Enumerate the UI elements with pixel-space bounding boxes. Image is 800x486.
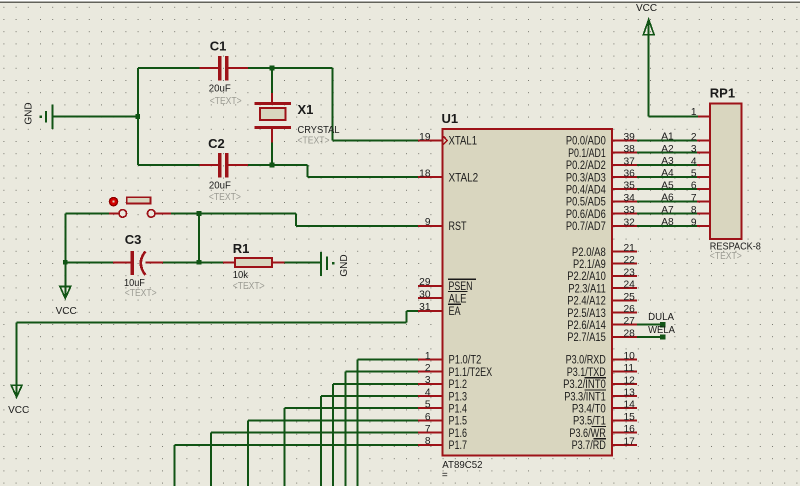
svg-text:25: 25 bbox=[624, 292, 636, 303]
svg-text:30: 30 bbox=[419, 290, 431, 301]
svg-text:10: 10 bbox=[624, 351, 636, 362]
wire crystal top lead bbox=[271, 68, 273, 93]
crystal X1 bbox=[255, 93, 291, 142]
svg-text:3: 3 bbox=[691, 144, 697, 155]
svg-text:P3.1/TXD: P3.1/TXD bbox=[567, 367, 606, 379]
svg-text:3: 3 bbox=[425, 375, 431, 386]
svg-text:13: 13 bbox=[624, 388, 636, 399]
svg-text:15: 15 bbox=[624, 412, 636, 423]
svg-text:P0.4/AD4: P0.4/AD4 bbox=[566, 185, 606, 197]
svg-text:7: 7 bbox=[425, 424, 431, 435]
svg-text:28: 28 bbox=[624, 328, 636, 339]
svg-text:P0.5/AD5: P0.5/AD5 bbox=[566, 197, 606, 209]
clock chevron XTAL1 bbox=[443, 136, 447, 144]
wire VCC to RP1 pin 1 bbox=[649, 115, 698, 117]
junction C1 row / crystal top bbox=[270, 66, 275, 71]
pin 9 RST (left) bbox=[418, 217, 467, 233]
svg-text:VCC: VCC bbox=[8, 405, 29, 416]
pin 25 P2.4/A12 (right) bbox=[567, 292, 637, 308]
wire to RST pin bbox=[296, 213, 418, 225]
svg-text:P2.6/A14: P2.6/A14 bbox=[567, 320, 606, 332]
pin 23 P2.2/A10 (right) bbox=[567, 267, 637, 283]
overline ALE bbox=[448, 291, 468, 293]
pin 37 P0.2/AD2 (right) bbox=[566, 156, 637, 172]
svg-text:31: 31 bbox=[419, 302, 431, 313]
overline WR bbox=[591, 426, 606, 428]
svg-text:P2.1/A9: P2.1/A9 bbox=[573, 259, 606, 271]
svg-text:X1: X1 bbox=[298, 102, 314, 117]
svg-text:<TEXT>: <TEXT> bbox=[233, 280, 265, 292]
svg-text:P3.4/T0: P3.4/T0 bbox=[572, 404, 606, 416]
pin 12 P3.2/INT0 (right) bbox=[563, 375, 637, 391]
svg-text:P0.1/AD1: P0.1/AD1 bbox=[568, 148, 606, 160]
svg-text:A8: A8 bbox=[661, 217, 674, 228]
svg-text:VCC: VCC bbox=[56, 306, 77, 317]
power VCC (reset rail, arrow down) bbox=[60, 286, 71, 298]
pin 14 P3.4/T0 (right) bbox=[572, 400, 637, 416]
overline PSEN bbox=[448, 278, 476, 280]
wire to C3 bbox=[65, 261, 113, 263]
wire reset node vertical bbox=[198, 213, 200, 262]
node WELA terminal bbox=[660, 334, 665, 339]
overline INT1 bbox=[585, 389, 606, 391]
svg-text:2: 2 bbox=[425, 363, 431, 374]
svg-text:10k: 10k bbox=[233, 269, 249, 281]
wire P0.3 to RP1 / net A4 bbox=[637, 168, 697, 179]
pin 32 P0.7/AD7 (right) bbox=[566, 217, 637, 233]
pin 8 RP1 bbox=[691, 205, 710, 216]
pin 3 P1.2 (left) bbox=[418, 375, 467, 391]
pin 5 P1.4 (left) bbox=[418, 400, 467, 416]
wire rail to button bbox=[65, 212, 109, 214]
svg-text:P0.6/AD6: P0.6/AD6 bbox=[566, 209, 606, 221]
svg-text:P3.3/INT1: P3.3/INT1 bbox=[564, 391, 606, 403]
node DULA terminal bbox=[660, 322, 665, 327]
wire C1 right to XTAL1 branch bbox=[248, 67, 332, 69]
svg-text:P0.2/AD2: P0.2/AD2 bbox=[566, 160, 606, 172]
pin 35 P0.4/AD4 (right) bbox=[566, 181, 637, 197]
wire P0.5 to RP1 / net A6 bbox=[637, 193, 697, 204]
svg-text:P3.7/RD: P3.7/RD bbox=[572, 440, 606, 452]
svg-text:36: 36 bbox=[624, 169, 636, 180]
svg-text:32: 32 bbox=[624, 217, 636, 228]
svg-text:P3.5/T1: P3.5/T1 bbox=[573, 416, 606, 428]
wire C3 to R1 bbox=[163, 261, 223, 263]
wire P0.1 to RP1 / net A2 bbox=[637, 144, 697, 155]
svg-text:=: = bbox=[442, 470, 448, 481]
ground GND (left of crystal caps) bbox=[46, 105, 52, 130]
wire P0.6 to RP1 / net A7 bbox=[637, 205, 697, 216]
pin 31 EA (left) bbox=[418, 302, 461, 318]
ground GND (right of R1) bbox=[321, 252, 327, 276]
wire crystal bottom lead bbox=[271, 142, 273, 165]
svg-text:XTAL2: XTAL2 bbox=[449, 172, 479, 184]
svg-text:24: 24 bbox=[624, 280, 636, 291]
wire P1.0 bus bbox=[358, 359, 418, 486]
resistor R1 bbox=[223, 258, 285, 267]
pin 18 XTAL2 (left) bbox=[418, 168, 478, 184]
wire C1 left bbox=[138, 67, 200, 69]
wire button to RST corner bbox=[171, 212, 296, 214]
svg-text:P0.7/AD7: P0.7/AD7 bbox=[566, 221, 606, 233]
svg-text:A1: A1 bbox=[661, 132, 674, 143]
pin 26 P2.5/A13 (right) bbox=[567, 304, 637, 320]
svg-text:AT89C52: AT89C52 bbox=[442, 459, 482, 471]
wire P1.3 bus bbox=[321, 396, 418, 486]
svg-text:P1.4: P1.4 bbox=[449, 404, 468, 416]
svg-text:P1.2: P1.2 bbox=[449, 379, 468, 391]
wire rail to VCC arrow bbox=[64, 262, 66, 296]
svg-text:P2.5/A13: P2.5/A13 bbox=[567, 308, 606, 320]
pin 17 P3.7/RD (right) bbox=[572, 436, 637, 452]
wire P1.2 bus bbox=[333, 384, 418, 486]
overline INT0 bbox=[585, 377, 606, 379]
junction C3/R1 node bbox=[197, 260, 202, 265]
svg-text:2: 2 bbox=[691, 132, 697, 143]
wire WELA stub bbox=[637, 336, 663, 338]
svg-text:A4: A4 bbox=[661, 168, 674, 179]
svg-text:20uF: 20uF bbox=[209, 83, 231, 95]
svg-text:P3.2/INT0: P3.2/INT0 bbox=[563, 379, 606, 391]
pin 29 PSEN (left) bbox=[418, 277, 473, 293]
wire P0.0 to RP1 / net A1 bbox=[637, 132, 697, 143]
svg-text:<TEXT>: <TEXT> bbox=[209, 191, 241, 203]
junction C2 row / crystal bottom bbox=[270, 163, 275, 168]
svg-text:39: 39 bbox=[624, 132, 636, 143]
wire to XTAL1 pin bbox=[332, 68, 418, 140]
wire P1.5 bus bbox=[248, 420, 418, 486]
pin 6 RP1 bbox=[691, 181, 710, 192]
svg-text:34: 34 bbox=[624, 193, 636, 204]
wire left rail C1-C2 bbox=[137, 68, 139, 165]
junction C1/C2 left rail bbox=[135, 114, 140, 119]
svg-text:P2.2/A10: P2.2/A10 bbox=[567, 271, 606, 283]
svg-text:<TEXT>: <TEXT> bbox=[125, 287, 157, 299]
svg-text:XTAL1: XTAL1 bbox=[449, 136, 478, 148]
svg-text:GND: GND bbox=[24, 102, 35, 124]
pin 5 RP1 bbox=[691, 169, 710, 180]
wire DULA stub bbox=[637, 324, 663, 326]
power VCC (top right, arrow up) bbox=[648, 22, 650, 116]
pin 24 P2.3/A11 (right) bbox=[568, 280, 637, 296]
svg-text:RST: RST bbox=[449, 221, 467, 233]
svg-text:P1.7: P1.7 bbox=[449, 440, 468, 452]
pin 1 RP1 bbox=[691, 107, 710, 118]
svg-text:5: 5 bbox=[691, 169, 697, 180]
svg-text:P3.0/RXD: P3.0/RXD bbox=[566, 355, 606, 367]
svg-text:C2: C2 bbox=[208, 136, 225, 151]
pin 3 RP1 bbox=[691, 144, 710, 155]
svg-text:A2: A2 bbox=[661, 144, 674, 155]
wire C2 left bbox=[138, 164, 200, 166]
pin 30 ALE (left) bbox=[418, 290, 467, 306]
pin 33 P0.6/AD6 (right) bbox=[566, 205, 637, 221]
pin 27 P2.6/A14 (right) bbox=[567, 316, 637, 332]
svg-text:4: 4 bbox=[425, 387, 431, 398]
svg-text:A6: A6 bbox=[661, 193, 674, 204]
svg-text:P1.5: P1.5 bbox=[449, 416, 468, 428]
pin 13 P3.3/INT1 (right) bbox=[564, 388, 637, 404]
svg-text:26: 26 bbox=[624, 304, 636, 315]
svg-text:27: 27 bbox=[624, 316, 636, 327]
pin 6 P1.5 (left) bbox=[418, 412, 467, 428]
pin 19 XTAL1 (left) bbox=[418, 132, 477, 148]
IC U1 microcontroller AT89C52 body bbox=[443, 129, 613, 456]
svg-text:A3: A3 bbox=[661, 156, 674, 167]
svg-text:EA: EA bbox=[449, 306, 461, 318]
svg-text:20uF: 20uF bbox=[209, 179, 231, 191]
wire GND to C1/C2 rail bbox=[52, 116, 137, 118]
wire P1.6 bus bbox=[211, 433, 418, 486]
svg-text:16: 16 bbox=[624, 424, 636, 435]
svg-text:C1: C1 bbox=[210, 38, 227, 53]
pin 4 P1.3 (left) bbox=[418, 387, 467, 403]
overline EA bbox=[448, 303, 461, 305]
svg-text:<TEXT>: <TEXT> bbox=[710, 250, 742, 262]
svg-text:21: 21 bbox=[624, 243, 636, 254]
wire P1.4 bus bbox=[284, 408, 418, 486]
capacitor C1 bbox=[199, 56, 248, 80]
window top edge bbox=[0, 0, 800, 2]
svg-text:23: 23 bbox=[624, 267, 636, 278]
svg-text:A7: A7 bbox=[661, 205, 674, 216]
pin 1 P1.0/T2 (left) bbox=[418, 351, 481, 367]
svg-text:1: 1 bbox=[425, 351, 431, 362]
pin 34 P0.5/AD5 (right) bbox=[566, 193, 637, 209]
svg-text:P0.3/AD3: P0.3/AD3 bbox=[566, 172, 606, 184]
capacitor C3 (electrolytic) bbox=[113, 251, 163, 275]
svg-text:33: 33 bbox=[624, 205, 636, 216]
svg-text:8: 8 bbox=[691, 205, 697, 216]
svg-text:P2.7/A15: P2.7/A15 bbox=[567, 332, 606, 344]
svg-text:DULA: DULA bbox=[648, 311, 674, 323]
wire R1 to ground bbox=[285, 261, 321, 263]
svg-text:11: 11 bbox=[624, 363, 635, 374]
svg-text:P3.6/WR: P3.6/WR bbox=[569, 428, 605, 440]
svg-text:P1.6: P1.6 bbox=[449, 428, 468, 440]
pin 28 P2.7/A15 (right) bbox=[567, 328, 637, 344]
pin 38 P0.1/AD1 (right) bbox=[568, 144, 637, 160]
junction button row / C3 node bbox=[197, 211, 202, 216]
svg-text:17: 17 bbox=[624, 436, 636, 447]
power VCC (EA rail, arrow down) bbox=[11, 385, 22, 397]
svg-text:6: 6 bbox=[691, 181, 697, 192]
wire P1.7 bus bbox=[175, 445, 418, 486]
svg-text:C3: C3 bbox=[125, 232, 142, 247]
svg-text:22: 22 bbox=[624, 255, 636, 266]
wire P0.2 to RP1 / net A3 bbox=[637, 156, 697, 167]
push button (reset) bbox=[109, 197, 171, 217]
svg-text:12: 12 bbox=[624, 375, 636, 386]
svg-text:5: 5 bbox=[425, 400, 431, 411]
wire P0.7 to RP1 / net A8 bbox=[637, 217, 697, 228]
svg-text:18: 18 bbox=[419, 168, 431, 179]
svg-text:P1.3: P1.3 bbox=[449, 391, 468, 403]
svg-text:7: 7 bbox=[691, 193, 697, 204]
pin 7 RP1 bbox=[691, 193, 710, 204]
svg-text:6: 6 bbox=[425, 412, 431, 423]
svg-text:GND: GND bbox=[339, 254, 350, 276]
svg-text:VCC: VCC bbox=[636, 3, 657, 14]
pin 21 P2.0/A8 (right) bbox=[572, 243, 637, 259]
pin 15 P3.5/T1 (right) bbox=[573, 412, 637, 428]
svg-text:R1: R1 bbox=[233, 241, 250, 256]
svg-text:P1.1/T2EX: P1.1/T2EX bbox=[449, 367, 493, 379]
svg-text:WELA: WELA bbox=[648, 324, 675, 336]
wire to XTAL2 pin bbox=[308, 165, 419, 177]
svg-text:P2.0/A8: P2.0/A8 bbox=[572, 247, 606, 259]
pin 36 P0.3/AD3 (right) bbox=[566, 169, 637, 185]
svg-text:38: 38 bbox=[624, 144, 636, 155]
pin 16 P3.6/WR (right) bbox=[569, 424, 637, 440]
svg-text:<TEXT>: <TEXT> bbox=[210, 95, 242, 107]
pin 2 P1.1/T2EX (left) bbox=[418, 363, 492, 379]
svg-text:37: 37 bbox=[624, 156, 636, 167]
svg-text:U1: U1 bbox=[442, 111, 459, 126]
svg-text:RP1: RP1 bbox=[710, 86, 735, 101]
junction rail / C3 bbox=[63, 260, 68, 265]
wire EA to VCC bbox=[17, 311, 418, 396]
pin 7 P1.6 (left) bbox=[418, 424, 467, 440]
svg-text:4: 4 bbox=[691, 156, 697, 167]
pin 8 P1.7 (left) bbox=[418, 436, 467, 452]
pin 4 RP1 bbox=[691, 156, 710, 167]
svg-text:8: 8 bbox=[425, 436, 431, 447]
pin 2 RP1 bbox=[691, 132, 710, 143]
overline RD bbox=[593, 438, 606, 440]
svg-text:9: 9 bbox=[691, 217, 697, 228]
svg-text:P2.3/A11: P2.3/A11 bbox=[568, 283, 605, 295]
svg-text:P0.0/AD0: P0.0/AD0 bbox=[566, 136, 606, 148]
svg-text:A5: A5 bbox=[661, 180, 674, 191]
svg-text:1: 1 bbox=[691, 107, 697, 118]
wire C2 right to XTAL2 branch bbox=[248, 164, 307, 166]
svg-text:29: 29 bbox=[419, 277, 431, 288]
pin 9 RP1 bbox=[691, 217, 710, 228]
svg-text:14: 14 bbox=[624, 400, 636, 411]
svg-text:<TEXT>: <TEXT> bbox=[298, 135, 330, 147]
pin 10 P3.0/RXD (right) bbox=[566, 351, 637, 367]
wire P0.4 to RP1 / net A5 bbox=[637, 180, 697, 191]
capacitor C2 bbox=[199, 153, 248, 177]
pin 39 P0.0/AD0 (right) bbox=[566, 132, 637, 148]
svg-text:P1.0/T2: P1.0/T2 bbox=[449, 355, 482, 367]
svg-text:P2.4/A12: P2.4/A12 bbox=[567, 296, 606, 308]
wire rail down to C3 row bbox=[64, 213, 66, 262]
pin 22 P2.1/A9 (right) bbox=[573, 255, 637, 271]
svg-text:9: 9 bbox=[425, 217, 431, 228]
pin 11 P3.1/TXD (right) bbox=[567, 363, 637, 379]
svg-text:35: 35 bbox=[624, 181, 636, 192]
svg-text:19: 19 bbox=[419, 132, 431, 143]
wire P1.1 bus bbox=[345, 372, 418, 486]
resistor pack RP1 body bbox=[710, 103, 742, 239]
